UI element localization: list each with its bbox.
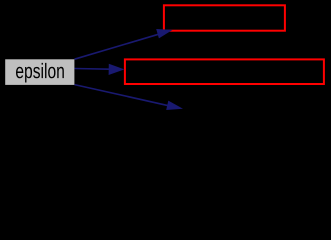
wire edge epsilon -> bottom (hidden node) [75,85,184,110]
node box top (empty, red border) [164,5,285,30]
node epsilon [5,59,74,85]
wire edge epsilon -> top box [75,29,173,59]
node box middle (empty, red border) [125,59,324,84]
wire edge epsilon -> middle box [75,64,125,75]
